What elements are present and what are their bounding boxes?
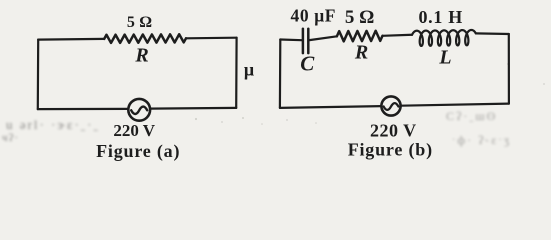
wire: capacitor to resistor (b): [310, 36, 337, 40]
svg-text:чʔ·: чʔ·: [2, 132, 19, 144]
svg-text:ˑф· ʔ˞ɛˑʒ: ˑф· ʔ˞ɛˑʒ: [452, 133, 511, 147]
wire: bottom-left segment (b): [280, 106, 381, 108]
svg-text:220 V: 220 V: [370, 121, 417, 141]
resistor R 5-ohm zigzag (a): [104, 34, 186, 43]
wire: bottom-right segment (a): [150, 107, 236, 110]
resistor R 5-ohm zigzag (b): [337, 31, 383, 42]
svg-text:5 Ω: 5 Ω: [345, 7, 374, 28]
wire: left vertical side of loop (a): [37, 40, 40, 110]
AC source sine wave (a): [131, 107, 147, 114]
AC source circle (a): [128, 99, 150, 121]
wire: bottom-right segment (b): [401, 104, 509, 106]
wire: inductor to top-right corner (b): [476, 32, 509, 35]
svg-text:R: R: [354, 42, 368, 64]
AC source circle (b): [381, 96, 400, 115]
AC source sine wave (b): [384, 103, 399, 110]
wire: bottom-left segment (a): [38, 108, 129, 110]
svg-text:Figure (b): Figure (b): [348, 139, 433, 160]
wire: right vertical side of loop (a): [235, 38, 238, 108]
svg-text:C: C: [300, 52, 315, 76]
svg-text:u ərl· ·ɝɛ·ˍ·ˍ: u ərl· ·ɝɛ·ˍ·ˍ: [6, 117, 100, 132]
svg-text:Cʔ·ˍшʘ: Cʔ·ˍшʘ: [446, 109, 497, 123]
wire: left vertical side of loop (b): [279, 40, 282, 108]
wire: top segment into capacitor (b): [280, 38, 301, 41]
inductor L coil (b): [412, 30, 476, 46]
wire: resistor to inductor (b): [383, 35, 413, 36]
wire: top-right segment (a): [186, 37, 237, 40]
capacitor C left plate: [302, 29, 305, 53]
svg-text:0.1 H: 0.1 H: [418, 7, 463, 27]
svg-text:220 V: 220 V: [113, 121, 155, 140]
svg-text:40 μF: 40 μF: [291, 6, 337, 26]
svg-text:Figure (a): Figure (a): [96, 141, 180, 162]
wire: right vertical side of loop (b): [508, 34, 510, 104]
svg-text:μ: μ: [244, 60, 254, 80]
wire: top-left segment (a): [38, 38, 104, 41]
capacitor C right plate: [307, 29, 310, 53]
svg-text:5 Ω: 5 Ω: [127, 14, 152, 31]
svg-text:R: R: [134, 44, 148, 66]
svg-text:L: L: [438, 47, 451, 69]
